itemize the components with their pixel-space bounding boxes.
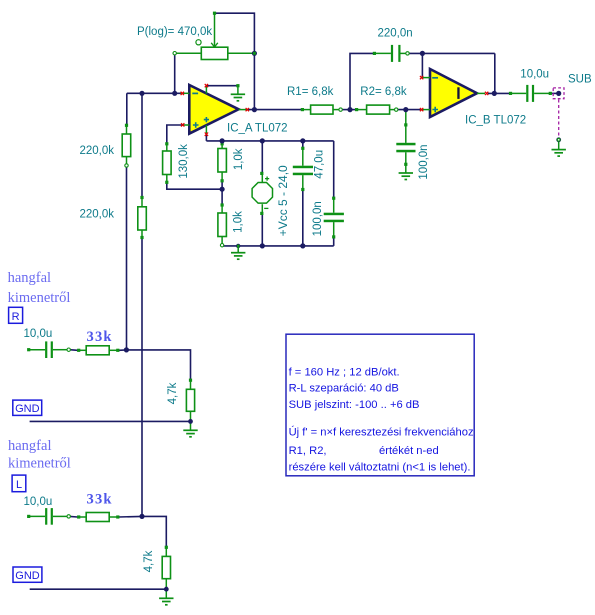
ground IC_A top pin (236, 84, 239, 87)
wire IC_A power pin down to rail (205, 134, 207, 141)
node inverting input (172, 91, 177, 96)
wire ground rail bottom (222, 245, 334, 247)
capacitor 10,0u output (509, 92, 512, 95)
resistor R1 6,8k (301, 108, 304, 111)
wire GND rail L channel (30, 588, 167, 590)
op-amp IC_B minus mark (432, 77, 438, 79)
node rail Vcc (260, 138, 265, 143)
op-amp IC_A top power pin (205, 86, 207, 94)
pin mark IC_B noninverting (420, 108, 423, 111)
svg-text:IC_A TL072: IC_A TL072 (227, 122, 288, 134)
node IC_A output (252, 107, 257, 112)
capacitor 47,0u (301, 147, 304, 150)
wire R junction to 4.7k (126, 350, 190, 379)
svg-text:220,0k: 220,0k (80, 145, 115, 157)
svg-text:220,0k: 220,0k (80, 208, 115, 220)
ground IC_B filter (405, 164, 407, 173)
node R1-R2 (347, 107, 352, 112)
wire 47u top (302, 141, 304, 148)
potentiometer wiper terminal (213, 12, 216, 15)
wire mid node to 1k-2 (221, 189, 223, 204)
ground SUB (558, 140, 560, 150)
wire 33k-R to junction (119, 349, 127, 351)
wire Vcc source top (261, 141, 263, 173)
node R junction (124, 347, 129, 352)
node gnd rail Vcc (260, 243, 265, 248)
op-amp IC_A noninverting pin (183, 124, 190, 126)
SUB dashed wire (558, 100, 560, 140)
wire inverting input node horizontal (127, 92, 181, 94)
wire 100n branch (333, 141, 335, 198)
svg-text:Új f' = n×f keresztezési frekv: Új f' = n×f keresztezési frekvenciához (289, 426, 474, 439)
wire 47u bottom (302, 190, 304, 246)
wire IC_B output to 10u (488, 92, 510, 94)
wire R2 to IC_B noninverting (397, 109, 421, 111)
svg-text:10,0u: 10,0u (24, 328, 53, 340)
op-amp IC_A inverting pin (181, 92, 190, 94)
node R gnd (188, 419, 193, 424)
ground L channel (165, 591, 167, 599)
node pot right feedback (252, 51, 257, 56)
op-amp IC_A output pin (239, 109, 247, 111)
op-amp IC_B I mark (457, 87, 459, 99)
resistor 220,0k upper (125, 124, 128, 127)
svg-text:130,0k: 130,0k (178, 144, 190, 179)
resistor 4,7k L (165, 546, 168, 549)
op-amp IC_A plus mark (193, 122, 199, 128)
node rail 47u (300, 138, 305, 143)
op-amp IC_A TL072 triangle (189, 85, 238, 134)
wire wiper-feedback top (216, 13, 255, 108)
svg-text:47,0u: 47,0u (314, 150, 326, 179)
op-amp IC_A power plus mark (204, 117, 209, 122)
wire node to R 220k branch (126, 93, 128, 125)
svg-text:33k: 33k (87, 329, 113, 345)
resistor 33k L (77, 515, 80, 518)
svg-text:220,0n: 220,0n (378, 28, 413, 40)
wire IC_A top pin to ground (206, 85, 236, 87)
resistor 33k R (77, 349, 80, 352)
pin mark IC_A bottom pin (205, 133, 208, 136)
svg-text:R-L szeparáció: 40 dB: R-L szeparáció: 40 dB (289, 383, 399, 395)
node IC_B plus input (403, 107, 408, 112)
svg-text:R: R (12, 311, 20, 323)
wire IC_B inverting branch (421, 53, 423, 77)
voltage source minus mark (264, 207, 268, 209)
svg-text:100,0n: 100,0n (312, 201, 324, 236)
resistor 4,7k R (189, 379, 192, 382)
wire L junction to 4.7k (142, 516, 166, 546)
capacitor 10,0u R input (27, 348, 30, 351)
wire 220k-1 bottom to R-channel junction (126, 167, 128, 350)
wire 220n to IC_B inverting node (409, 52, 495, 54)
wire 1k-1 bottom to mid node (221, 181, 223, 189)
svg-text:hangfal: hangfal (8, 438, 51, 454)
wire IC_A noninverting input (167, 125, 182, 143)
wire 130k bottom to mid node (167, 183, 222, 189)
capacitor 100,0n supply (332, 197, 335, 200)
port label L box (12, 475, 26, 492)
op-amp IC_A bottom power pin (205, 125, 207, 134)
svg-text:4,7k: 4,7k (167, 382, 179, 404)
node mid divider (220, 187, 225, 192)
wire L-in cap to 33k jog (70, 515, 78, 518)
potentiometer taper mark (196, 40, 201, 45)
label GND box R (13, 400, 42, 415)
voltage source bottom terminal (260, 212, 263, 215)
potentiometer P(log) 470k body (176, 52, 201, 54)
pin mark IC_A output (246, 108, 249, 111)
svg-text:1,0k: 1,0k (233, 211, 245, 233)
svg-text:+Vcc 5 - 24,0: +Vcc 5 - 24,0 (276, 165, 290, 236)
wire 220k-2 bottom to L-channel junction (141, 239, 143, 517)
potentiometer left terminal (173, 52, 176, 55)
node rail 1k (220, 138, 225, 143)
svg-text:100,0n: 100,0n (418, 144, 430, 179)
pin mark IC_A top pin (205, 84, 208, 87)
op-amp IC_B inverting pin (422, 77, 430, 79)
svg-text:GND: GND (15, 570, 40, 582)
wire R1R2 node up to 220n cap (350, 53, 374, 109)
voltage source plus mark (265, 177, 269, 181)
ground supply mid-rail (236, 244, 240, 248)
svg-text:R1= 6,8k: R1= 6,8k (287, 86, 334, 98)
wire node to L 220k branch (141, 93, 143, 196)
svg-text:33k: 33k (87, 492, 113, 508)
svg-text:SUB: SUB (568, 73, 592, 85)
pin mark IC_B output (485, 92, 488, 95)
node gnd rail 47u (300, 243, 305, 248)
op-amp IC_B plus mark (432, 107, 438, 113)
svg-text:4,7k: 4,7k (143, 550, 155, 572)
node SUB port pin (556, 91, 561, 96)
op-amp IC_A minus mark (192, 92, 198, 94)
svg-text:kimenetről: kimenetről (8, 290, 71, 306)
note box (286, 334, 474, 476)
wire 10u to SUB port (551, 92, 557, 94)
resistor R2 6,8k (355, 108, 358, 111)
resistor 1,0k lower (221, 203, 224, 206)
node IC_B output (492, 91, 497, 96)
svg-text:részére kell változtatni (n<1: részére kell változtatni (n<1 is lehet). (289, 461, 471, 473)
voltage source top terminal (260, 172, 263, 175)
wire IC_A output to R1 (248, 109, 302, 111)
voltage source +Vcc octagon (261, 174, 263, 183)
capacitor 220,0n (373, 52, 376, 55)
resistor 130,0k (165, 142, 168, 145)
wire IC_B feedback down to output (494, 53, 496, 93)
svg-text:GND: GND (15, 403, 40, 415)
label GND box L (13, 567, 42, 582)
wire 1k-1 stub top (221, 141, 223, 143)
pin mark IC_A inverting (181, 92, 184, 95)
capacitor 100,0n IC_B input filter (405, 111, 407, 125)
wire supply rail top (206, 140, 333, 142)
svg-text:értékét n-ed: értékét n-ed (379, 445, 439, 457)
svg-text:kimenetről: kimenetről (8, 456, 71, 472)
op-amp IC_B TL072 triangle (430, 69, 477, 117)
svg-text:IC_B TL072: IC_B TL072 (465, 115, 526, 127)
wire 4.7k-R bottom (190, 419, 192, 421)
wire pot left terminal to inverting node (174, 55, 176, 93)
wire R1 to R2 (341, 109, 356, 111)
SUB port (553, 88, 564, 99)
resistor 220,0k lower (140, 196, 143, 199)
wire R-in cap to 33k jog (70, 349, 78, 352)
svg-text:R2= 6,8k: R2= 6,8k (360, 86, 407, 98)
node IC_B inverting feedback (420, 51, 425, 56)
resistor 1,0k upper (221, 142, 224, 145)
svg-text:SUB jelszint: -100 .. +6 dB: SUB jelszint: -100 .. +6 dB (289, 399, 420, 411)
svg-text:f = 160 Hz ; 12 dB/okt.: f = 160 Hz ; 12 dB/okt. (289, 366, 400, 378)
node inverting-220k2 (139, 91, 144, 96)
op-amp IC_B noninverting pin (422, 109, 430, 111)
wire GND rail R channel (30, 420, 191, 422)
port label R box (9, 307, 23, 323)
svg-text:10,0u: 10,0u (520, 68, 549, 80)
svg-text:P(log)= 470,0k: P(log)= 470,0k (137, 26, 212, 38)
pin mark IC_B inverting (420, 76, 423, 79)
wire 100n bottom (333, 237, 335, 246)
node L gnd (164, 587, 169, 592)
ground R channel (190, 423, 192, 430)
node L junction (139, 514, 144, 519)
svg-text:L: L (16, 479, 22, 491)
wire 4.7k-L bottom (165, 586, 167, 589)
svg-text:R1, R2,: R1, R2, (289, 445, 327, 457)
wire 33k-L to junction (119, 515, 143, 518)
wire Vcc source bottom (261, 214, 263, 246)
op-amp IC_B output pin (477, 92, 485, 94)
svg-text:1,0k: 1,0k (233, 148, 245, 170)
svg-text:10,0u: 10,0u (24, 496, 53, 508)
node SUB ground (556, 137, 561, 142)
capacitor 10,0u L input (27, 515, 30, 518)
pin mark IC_A noninverting (181, 123, 184, 126)
svg-text:hangfal: hangfal (8, 270, 51, 286)
